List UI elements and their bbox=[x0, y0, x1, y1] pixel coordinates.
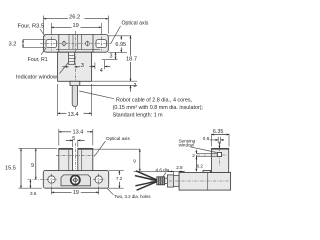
dim 19 bbox=[50, 23, 52, 35]
center recess bbox=[61, 175, 91, 186]
dim 19 (bottom) bbox=[51, 187, 53, 195]
right small circle bbox=[86, 42, 90, 46]
optical axis line (front) bbox=[56, 155, 95, 157]
svg-text:Optical axis: Optical axis bbox=[122, 20, 149, 26]
svg-text:2: 2 bbox=[192, 153, 195, 158]
svg-text:5: 5 bbox=[72, 136, 75, 142]
boot bbox=[167, 175, 173, 187]
cable tube bbox=[72, 85, 77, 106]
base bar bbox=[43, 171, 108, 189]
dim 26.2 bbox=[43, 16, 45, 34]
cable boot bbox=[70, 81, 80, 85]
tower caps bbox=[59, 148, 72, 150]
optical axis dash-dot (side) bbox=[197, 154, 227, 156]
slot inner lines bbox=[68, 150, 70, 171]
svg-text:6.95: 6.95 bbox=[115, 42, 126, 48]
svg-text:6.2: 6.2 bbox=[197, 164, 204, 169]
dim 7.2 bbox=[109, 170, 124, 172]
right ear hole bbox=[95, 176, 102, 183]
svg-text:2.8: 2.8 bbox=[176, 165, 183, 170]
window centerline bbox=[219, 142, 221, 166]
svg-text:Optical axis: Optical axis bbox=[106, 136, 130, 141]
svg-text:2: 2 bbox=[133, 83, 136, 89]
svg-text:9: 9 bbox=[31, 163, 34, 169]
cable axis dash-dot bbox=[150, 180, 229, 182]
tower cap bbox=[212, 148, 229, 150]
wires bbox=[135, 171, 157, 190]
crimp bushing bbox=[157, 177, 165, 185]
svg-text:3: 3 bbox=[110, 54, 113, 60]
svg-text:Indicator window: Indicator window bbox=[16, 74, 57, 80]
dim 6.2 bbox=[195, 155, 197, 171]
tower block edges in plan bbox=[58, 35, 60, 53]
svg-text:Four, R1: Four, R1 bbox=[28, 57, 48, 63]
svg-text:Two, 3.2 dia. holes: Two, 3.2 dia. holes bbox=[114, 194, 151, 199]
top tab bbox=[203, 171, 211, 173]
right oval hole bbox=[96, 40, 107, 48]
dim 6.95 bbox=[108, 35, 131, 37]
svg-text:3.6: 3.6 bbox=[30, 191, 37, 196]
svg-text:4: 4 bbox=[100, 68, 103, 74]
dim 3 (side) bbox=[102, 58, 118, 60]
svg-text:7.2: 7.2 bbox=[116, 176, 123, 181]
vertical centerline through body bbox=[74, 31, 76, 110]
svg-text:13.4: 13.4 bbox=[73, 130, 84, 136]
arrow down to tower top bbox=[219, 143, 221, 149]
dim 5 (slot) bbox=[72, 140, 74, 147]
right hole vertical centerline bbox=[100, 37, 102, 51]
left tower bbox=[59, 148, 73, 170]
flange plate bbox=[44, 35, 109, 53]
dim 2.8 bbox=[172, 171, 174, 175]
svg-text:(0.15 mm² with 0.8 mm dia. ins: (0.15 mm² with 0.8 mm dia. insulator); bbox=[113, 105, 204, 111]
dim 3.6 bbox=[29, 180, 31, 189]
right tower bbox=[78, 148, 93, 170]
tower bbox=[212, 148, 229, 172]
sensing window bbox=[217, 152, 221, 156]
svg-text:Robot cable of 2.8 dia., 4 cor: Robot cable of 2.8 dia., 4 cores, bbox=[116, 97, 193, 103]
center boss circle bbox=[71, 175, 80, 184]
left small circle bbox=[62, 42, 66, 46]
relief section 2.8 bbox=[173, 176, 179, 187]
svg-text:19: 19 bbox=[73, 23, 79, 29]
left oval hole bbox=[46, 40, 57, 48]
center vertical dash-dot bbox=[74, 143, 76, 169]
dim 2 (window) bbox=[196, 153, 217, 155]
dim 9 (left) bbox=[35, 148, 37, 179]
dim 13.4 (towers) bbox=[58, 129, 60, 146]
svg-text:Standard length: 1 m: Standard length: 1 m bbox=[113, 113, 164, 119]
svg-text:4.6 dia.: 4.6 dia. bbox=[156, 168, 171, 173]
dim 6.35 bbox=[211, 134, 213, 147]
svg-text:Four, R3.5: Four, R3.5 bbox=[18, 24, 45, 30]
flange inner bottom line bbox=[56, 48, 100, 50]
base top ext line bbox=[134, 170, 185, 172]
svg-text:0.8: 0.8 bbox=[203, 136, 210, 141]
dim 3 (indicator window) bbox=[62, 66, 68, 68]
svg-text:13.4: 13.4 bbox=[68, 112, 79, 118]
tower top ext to right bbox=[93, 148, 140, 150]
dim 4 (side) bbox=[94, 63, 96, 70]
svg-text:18.7: 18.7 bbox=[126, 57, 137, 63]
dim 13.4 (cable view) bbox=[57, 84, 59, 116]
svg-text:9: 9 bbox=[133, 159, 136, 164]
body base bbox=[179, 173, 231, 191]
indicator window bbox=[69, 52, 75, 64]
dim 15.5 bbox=[19, 147, 58, 149]
dim 18.7 bbox=[92, 80, 138, 82]
horizontal centerline bbox=[40, 43, 111, 45]
body bbox=[58, 52, 92, 81]
svg-text:15.5: 15.5 bbox=[5, 165, 16, 171]
svg-text:19: 19 bbox=[73, 190, 79, 196]
neck bbox=[165, 178, 168, 183]
svg-text:6.35: 6.35 bbox=[213, 129, 224, 135]
svg-text:3: 3 bbox=[81, 63, 84, 69]
left hole vertical centerline bbox=[50, 37, 52, 51]
svg-text:3.2: 3.2 bbox=[9, 42, 17, 48]
dim 2 (cable boot) bbox=[80, 85, 137, 87]
hole centerline ext bbox=[28, 179, 47, 181]
slot edges in plan bbox=[68, 35, 70, 50]
robot cable leader bbox=[79, 91, 114, 99]
left ear hole bbox=[48, 176, 55, 183]
dim 9 (right) bbox=[139, 149, 141, 171]
svg-text:26.2: 26.2 bbox=[69, 15, 80, 21]
